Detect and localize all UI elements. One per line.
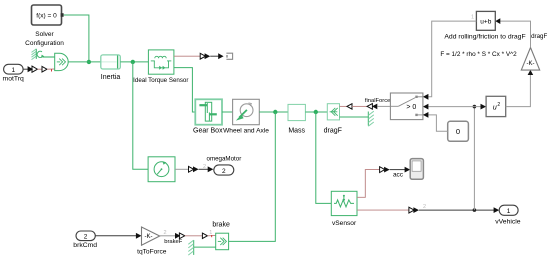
svg-text:Add rolling/friction to dragF: Add rolling/friction to dragF xyxy=(444,34,525,41)
wheel and axle block xyxy=(233,99,260,124)
node junction J4 xyxy=(314,110,318,114)
port arrow at S input xyxy=(42,66,47,72)
wire sensor T output to converter xyxy=(174,55,200,57)
bias u+b block xyxy=(476,11,495,30)
svg-text:dragF: dragF xyxy=(324,127,342,134)
arrowhead into scope xyxy=(405,167,411,173)
svg-text:brkCmd: brkCmd xyxy=(73,242,97,249)
svg-text:> 0: > 0 xyxy=(406,104,416,111)
wire u+b output to switch input 1 xyxy=(428,21,476,97)
outport 2 omegaMotor xyxy=(214,165,234,175)
svg-text:f(x) = 0: f(x) = 0 xyxy=(36,12,57,19)
mechanical translational reference right xyxy=(368,111,374,126)
wire dragF case port to reference xyxy=(340,116,369,118)
wire junction up to V line xyxy=(473,107,475,211)
wire vSensor v output xyxy=(357,209,409,211)
wire sensor R output to gear box xyxy=(174,68,195,112)
svg-text:Configuration: Configuration xyxy=(25,40,64,47)
mechanical rotational reference xyxy=(32,49,37,60)
svg-text:2: 2 xyxy=(84,233,88,240)
red tick S port xyxy=(51,69,53,71)
node junction J5 xyxy=(473,208,477,212)
arrowhead into gain xyxy=(136,233,142,239)
arrowhead into u+b xyxy=(495,18,500,24)
gain -K- drag xyxy=(521,48,539,71)
svg-text:brakeF: brakeF xyxy=(164,239,183,245)
inport 1 motTrq xyxy=(4,64,24,74)
wire vSensor acc output xyxy=(357,170,380,198)
wire junction down to brake xyxy=(229,112,276,241)
wire converter to terminator xyxy=(210,55,219,57)
svg-text:1: 1 xyxy=(471,15,474,21)
wire u2 output up to gain xyxy=(506,75,531,107)
svg-text:F = 1/2 * rho * S * Cx * V^2: F = 1/2 * rho * S * Cx * V^2 xyxy=(440,51,517,58)
inertia block xyxy=(101,55,121,69)
arrowhead into switch input 2 xyxy=(423,104,429,110)
mechanical translational reference brake xyxy=(188,240,193,255)
svg-text:vSensor: vSensor xyxy=(332,220,357,227)
converter S-PS arrows leftward xyxy=(367,104,377,110)
arrowhead into switch input 1 xyxy=(423,94,429,100)
port arrow at brake input xyxy=(202,233,207,238)
wire motTrq to converter xyxy=(23,68,28,70)
svg-text:finalForce: finalForce xyxy=(365,98,390,104)
wire junction down to motion sensor xyxy=(133,62,148,169)
svg-text:Mass: Mass xyxy=(288,127,305,134)
svg-text:Solver: Solver xyxy=(35,31,54,38)
svg-text:-K-: -K- xyxy=(527,61,535,67)
node junction J2 xyxy=(131,60,135,64)
vSensor block xyxy=(331,191,357,215)
mass block xyxy=(288,104,305,120)
svg-text:Wheel and Axle: Wheel and Axle xyxy=(223,127,269,134)
wire wheel and axle to mass xyxy=(259,111,288,113)
svg-text:1: 1 xyxy=(11,67,15,74)
svg-text:Inertia: Inertia xyxy=(101,74,121,81)
ideal torque sensor block xyxy=(148,50,174,74)
wire mass to dragF xyxy=(305,111,327,113)
converter S-PS arrows xyxy=(28,66,38,72)
constant 0 block xyxy=(448,121,469,141)
math square u2 block xyxy=(486,96,506,116)
arrowhead into gain xyxy=(528,70,534,75)
arrowhead into outport 2 xyxy=(208,166,214,172)
converter PS-S arrows xyxy=(189,166,199,172)
port arrow at F input xyxy=(347,104,352,109)
wire PS stub to torque source xyxy=(37,68,42,70)
svg-text:2: 2 xyxy=(163,230,166,236)
wire V line to switch input 2 xyxy=(428,106,474,108)
svg-text:u: u xyxy=(493,104,497,111)
wire inertia to torque sensor xyxy=(120,61,148,63)
wire converter to brake port xyxy=(185,235,203,237)
svg-text:motTrq: motTrq xyxy=(3,75,24,82)
wire converter to scope xyxy=(390,169,405,171)
wire reference to torque source C port xyxy=(43,56,55,58)
curved arrow C port adornment xyxy=(37,51,44,58)
arrowhead into u2 xyxy=(481,104,487,110)
brake block xyxy=(216,233,229,250)
svg-text:1: 1 xyxy=(507,208,511,215)
switch block xyxy=(390,93,423,120)
svg-text:2: 2 xyxy=(423,204,426,210)
svg-text:2: 2 xyxy=(203,164,206,170)
svg-text:Gear Box: Gear Box xyxy=(193,127,223,134)
svg-text:Ideal Torque Sensor: Ideal Torque Sensor xyxy=(133,77,188,84)
wire solver to network xyxy=(64,15,89,62)
wire gain output up to u+b xyxy=(500,21,531,47)
svg-text:tqToForce: tqToForce xyxy=(137,248,167,255)
wire gain to converter xyxy=(160,235,176,237)
node junction J1 xyxy=(87,60,91,64)
svg-text:1: 1 xyxy=(209,230,212,236)
svg-text:dragF: dragF xyxy=(531,33,547,40)
gain tqToForce xyxy=(142,227,160,245)
svg-text:acc: acc xyxy=(393,171,404,178)
wire brkCmd to gain xyxy=(95,235,137,237)
label Solver Configuration xyxy=(25,31,64,47)
converter S-PS arrows xyxy=(175,233,185,239)
wire converter to vVehicle xyxy=(419,209,494,211)
wire gear box to wheel and axle xyxy=(222,111,233,113)
wire dragF F port to converter xyxy=(340,105,348,107)
converter PS-S arrows xyxy=(200,53,210,59)
svg-text:vVehicle: vVehicle xyxy=(495,219,521,226)
wire torque source to inertia xyxy=(68,61,101,63)
svg-text:2: 2 xyxy=(222,168,226,175)
svg-text:omegaMotor: omegaMotor xyxy=(207,155,242,162)
converter PS-S arrows acc xyxy=(380,167,390,173)
solver configuration block U_SC xyxy=(32,5,64,25)
wire converter to switch output xyxy=(377,105,390,107)
svg-text:brake: brake xyxy=(212,222,230,229)
node junction J3 xyxy=(273,110,277,114)
svg-text:0: 0 xyxy=(456,127,460,136)
wire junction down to vSensor xyxy=(316,112,332,203)
ideal torque source xyxy=(55,53,68,70)
arrowhead into outport 1 xyxy=(494,207,500,213)
gear box block xyxy=(195,99,222,124)
wire converter to outport xyxy=(199,168,208,170)
red tick brake port xyxy=(211,235,213,237)
inport 2 brkCmd xyxy=(76,231,95,241)
wire constant 0 to switch input 3 xyxy=(428,115,447,131)
wire reference to brake case xyxy=(194,246,216,248)
converter PS-S arrows v xyxy=(409,207,419,213)
arrowhead into switch input 3 xyxy=(423,112,429,118)
svg-text:2: 2 xyxy=(497,102,500,108)
wire V line to u2 xyxy=(474,106,481,108)
rotational motion sensor block xyxy=(148,157,175,182)
svg-text:u+b: u+b xyxy=(480,18,491,25)
wire motion sensor to converter xyxy=(175,168,189,170)
terminator block xyxy=(226,53,232,59)
scope block acc xyxy=(410,159,423,180)
svg-text:-K-: -K- xyxy=(145,234,153,240)
node junction J6 xyxy=(473,105,477,109)
arrowhead into terminator xyxy=(218,53,223,59)
dragF force block xyxy=(327,104,339,120)
outport 1 vVehicle xyxy=(499,205,518,215)
